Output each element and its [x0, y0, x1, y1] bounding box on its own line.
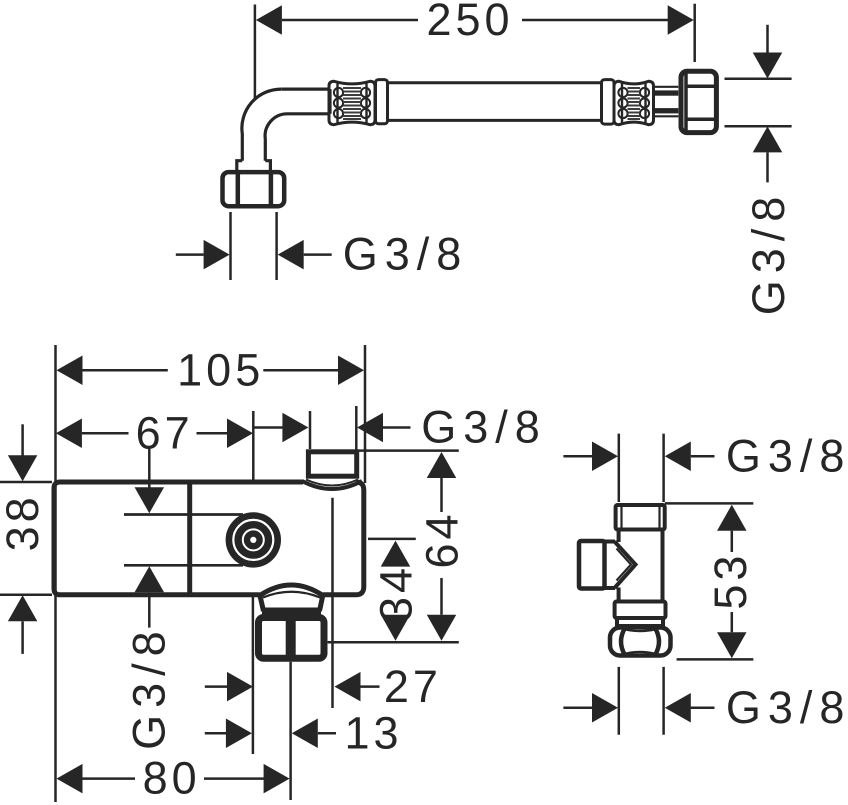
bottom port nut	[259, 616, 325, 659]
dimension 250 extension line left	[254, 5, 257, 100]
hose end cap right	[602, 80, 615, 125]
valve top cap	[616, 505, 665, 530]
svg-text:G3/8: G3/8	[123, 624, 174, 750]
svg-text:G3/8: G3/8	[421, 402, 547, 453]
hose nut right G3/8	[681, 71, 716, 132]
svg-text:64: 64	[417, 510, 468, 568]
crimp collar left loops and threads	[334, 88, 370, 119]
valve port connector	[605, 542, 616, 589]
top port arcs	[302, 480, 362, 490]
svg-text:G3/8: G3/8	[726, 431, 848, 482]
53 top reference line	[665, 502, 754, 505]
dimension 64	[427, 452, 457, 641]
dimension G3/8 valve top	[563, 442, 714, 472]
valve bottom extension lines	[619, 667, 664, 735]
bracket body	[54, 482, 364, 595]
valve nut	[610, 628, 671, 656]
dimension 250 extension line right	[693, 4, 696, 62]
dimension 34	[381, 541, 411, 641]
extension line 67 below body	[252, 595, 255, 754]
dimension G3/8 left port arrows	[135, 448, 165, 628]
top port	[308, 452, 356, 476]
crimp collar right	[614, 81, 654, 124]
dimension 38 left	[8, 424, 37, 654]
inner vertical line right	[331, 498, 334, 708]
extension line 67 right	[252, 411, 255, 482]
extension line nut centre	[289, 662, 292, 800]
valve bottom collar	[615, 602, 666, 627]
dimension 67	[56, 418, 253, 448]
svg-text:G3/8: G3/8	[743, 190, 794, 316]
dimension G3/8 top port arrows	[253, 413, 410, 443]
svg-text:27: 27	[384, 661, 442, 712]
top port extension lines	[310, 406, 356, 452]
valve top extension lines	[619, 434, 664, 502]
crimp collar right loops and threads	[618, 88, 649, 119]
hose body	[388, 83, 602, 121]
dimension 27	[205, 672, 380, 702]
dimension 105	[57, 355, 365, 385]
svg-text:105: 105	[177, 344, 264, 395]
knob centre reference line	[368, 538, 416, 541]
dimension 13	[205, 719, 336, 749]
dimension G3/8 valve bottom	[563, 693, 714, 723]
knob	[226, 512, 281, 567]
dimension 80	[57, 764, 290, 794]
port top reference line	[359, 449, 459, 452]
hose elbow tube	[242, 89, 330, 161]
dimension 250 line and arrows	[256, 5, 694, 35]
bottom port dome	[260, 585, 323, 611]
svg-text:13: 13	[344, 708, 402, 759]
dimension G3/8 right of hose nut	[753, 25, 783, 183]
valve left port	[579, 541, 605, 589]
elbow nut extension lines	[231, 212, 277, 280]
elbow neck	[237, 161, 271, 171]
body top extension to left edge	[0, 481, 52, 484]
svg-text:34: 34	[371, 564, 422, 622]
svg-text:250: 250	[426, 0, 513, 45]
threaded stem right	[654, 87, 679, 117]
internal port lines left	[124, 515, 243, 566]
body division line	[187, 482, 192, 595]
svg-text:38: 38	[0, 493, 48, 551]
dimension 53	[717, 505, 747, 659]
hose nut reference lines right	[725, 79, 792, 127]
elbow nut G3/8	[223, 172, 285, 206]
crimp collar left	[329, 81, 375, 124]
svg-text:80: 80	[143, 753, 201, 804]
dimension G3/8 under elbow nut	[176, 240, 332, 270]
valve main tube	[619, 530, 663, 602]
svg-text:67: 67	[136, 407, 194, 458]
body bottom extension to left edge	[0, 594, 52, 597]
hose end cap left	[376, 80, 388, 124]
valve cone	[615, 542, 636, 589]
svg-text:53: 53	[705, 552, 756, 610]
svg-text:G3/8: G3/8	[343, 228, 469, 279]
main extension line left	[54, 345, 57, 802]
53 bottom reference line	[677, 658, 754, 661]
bottom reference line	[328, 641, 459, 644]
svg-text:G3/8: G3/8	[726, 682, 848, 733]
extension line right 105	[364, 345, 367, 483]
bottom port collar bar	[262, 608, 321, 615]
